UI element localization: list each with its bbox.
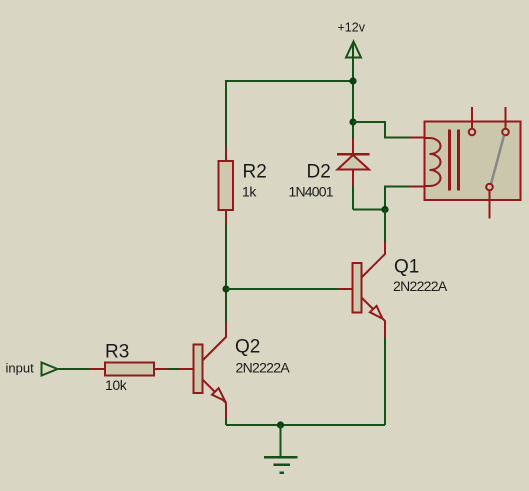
wire: Q2 emitter to bottom rail xyxy=(225,419,227,426)
wire: top junction to relay coil top pin xyxy=(353,122,410,138)
relay contact circles xyxy=(469,129,476,136)
svg-text:D2: D2 xyxy=(307,162,331,183)
svg-text:+12v: +12v xyxy=(338,21,366,35)
node: junction at +12v rail / top wire xyxy=(349,77,356,84)
wire: R3 to Q2 base xyxy=(169,368,179,370)
resistor R2 xyxy=(219,147,267,225)
wire: Q1 emitter down to bottom rail xyxy=(384,338,386,426)
wire: diode bottom to lower junction xyxy=(353,186,385,210)
relay contact pins top xyxy=(471,107,473,129)
resistor R3 xyxy=(89,342,169,394)
ground xyxy=(264,425,298,473)
svg-text:2N2222A: 2N2222A xyxy=(236,360,291,376)
svg-text:R3: R3 xyxy=(105,342,129,363)
pin: relay coil bottom xyxy=(410,186,426,188)
pin: relay coil top xyxy=(410,137,426,139)
svg-text:1N4001: 1N4001 xyxy=(289,184,334,200)
node: junction at diode top xyxy=(349,118,356,125)
transistor Q1 xyxy=(337,242,448,338)
wire: lower junction down to Q1 collector xyxy=(384,210,386,242)
svg-text:1k: 1k xyxy=(242,184,257,200)
svg-text:Q1: Q1 xyxy=(394,257,419,278)
terminal: input xyxy=(6,361,58,376)
power +12v xyxy=(338,21,366,82)
wire: left vertical down to R2 xyxy=(225,80,227,147)
svg-text:input: input xyxy=(6,361,35,376)
relay common contact xyxy=(486,184,493,191)
wire: R2 bottom to base junction and Q2 collector xyxy=(225,225,227,322)
node: ground junction xyxy=(277,421,284,428)
wire: relay coil bottom pin to lower junction xyxy=(385,187,410,210)
wire: +12v rail down to diode/relay junction xyxy=(352,81,354,122)
relay RL1 xyxy=(425,107,521,219)
transistor Q2 xyxy=(179,322,291,419)
svg-text:R2: R2 xyxy=(243,162,267,183)
relay core bars xyxy=(448,130,451,191)
wire: input to R3 xyxy=(58,368,90,370)
diode D2 xyxy=(289,122,370,200)
wire: bottom rail xyxy=(226,424,385,426)
node: junction diode/relay/Q1 collector xyxy=(381,206,388,213)
wire: top horizontal to R2 column xyxy=(225,80,353,82)
wire: base junction to Q1 base xyxy=(226,288,337,290)
svg-text:10k: 10k xyxy=(105,377,128,393)
svg-text:2N2222A: 2N2222A xyxy=(393,278,448,294)
relay coil xyxy=(425,138,441,186)
node: base junction xyxy=(222,285,229,292)
relay switch arm xyxy=(491,136,504,185)
svg-text:Q2: Q2 xyxy=(235,337,260,358)
